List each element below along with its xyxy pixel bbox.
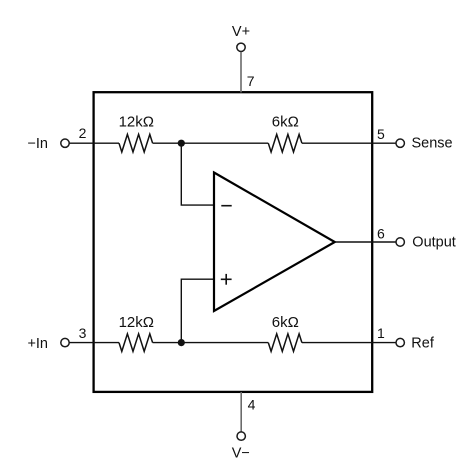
- label +In: [27, 336, 48, 352]
- terminal +In: [61, 338, 69, 346]
- pin number 7: [247, 73, 255, 89]
- resistor 12k (pin2 to node A): [119, 134, 153, 152]
- wire +In to R 12k bottom: [69, 342, 119, 344]
- terminal V+: [237, 43, 245, 51]
- terminal Ref: [396, 338, 404, 346]
- svg-text:6kΩ: 6kΩ: [272, 113, 299, 130]
- svg-text:Sense: Sense: [412, 135, 453, 151]
- node B junction dot: [178, 339, 185, 346]
- terminal Output: [396, 238, 404, 246]
- resistor 6k (node A to Sense): [268, 134, 302, 152]
- terminal V-: [237, 432, 245, 440]
- pin number 4: [248, 397, 256, 413]
- label V+: [232, 24, 250, 40]
- node A junction dot: [178, 140, 185, 147]
- label -In: [27, 136, 48, 152]
- svg-text:7: 7: [247, 73, 255, 89]
- wire R6k to Sense: [302, 142, 396, 144]
- label Sense: [412, 135, 453, 151]
- resistor 6k (node B to Ref): [268, 334, 302, 352]
- wire node A to op-amp inverting input: [181, 143, 214, 205]
- terminal -In: [61, 139, 69, 147]
- svg-text:6kΩ: 6kΩ: [272, 314, 299, 331]
- pin number 6: [377, 225, 385, 241]
- wire R12k to R6k bottom: [153, 342, 269, 344]
- svg-text:12kΩ: 12kΩ: [119, 314, 154, 331]
- label Ref: [411, 335, 435, 351]
- svg-text:1: 1: [377, 325, 385, 341]
- svg-text:+In: +In: [27, 336, 48, 352]
- svg-text:6: 6: [377, 225, 385, 241]
- svg-text:3: 3: [79, 325, 87, 341]
- label Output: [412, 234, 456, 250]
- package outline: [94, 92, 373, 392]
- svg-text:V−: V−: [232, 446, 250, 462]
- value label 12k bottom: [119, 314, 154, 331]
- resistor 12k (pin3 to node B): [119, 334, 153, 352]
- wire pin 4 to V-: [240, 392, 242, 432]
- pin number 2: [79, 125, 87, 141]
- pin number 3: [79, 325, 87, 341]
- wire node B to op-amp non-inverting input: [181, 279, 214, 342]
- wire R12k to R6k top: [153, 142, 269, 144]
- svg-text:4: 4: [248, 397, 256, 413]
- value label 6k bottom: [272, 314, 299, 331]
- pin number 5: [377, 126, 385, 142]
- pin number 1: [377, 325, 385, 341]
- svg-text:2: 2: [79, 125, 87, 141]
- value label 12k top: [119, 113, 154, 130]
- label V-: [232, 446, 250, 462]
- svg-text:Ref: Ref: [411, 335, 435, 351]
- wire op-amp output to Output: [335, 241, 396, 243]
- svg-text:Output: Output: [412, 234, 456, 250]
- svg-text:12kΩ: 12kΩ: [119, 113, 154, 130]
- value label 6k top: [272, 113, 299, 130]
- svg-text:5: 5: [377, 126, 385, 142]
- terminal Sense: [396, 139, 404, 147]
- op-amp U1: [214, 173, 335, 312]
- svg-text:−In: −In: [27, 136, 48, 152]
- svg-text:V+: V+: [232, 24, 250, 40]
- wire R6k to Ref: [302, 342, 396, 344]
- wire -In to R 12k: [69, 142, 119, 144]
- wire V+ to pin 7: [240, 52, 242, 93]
